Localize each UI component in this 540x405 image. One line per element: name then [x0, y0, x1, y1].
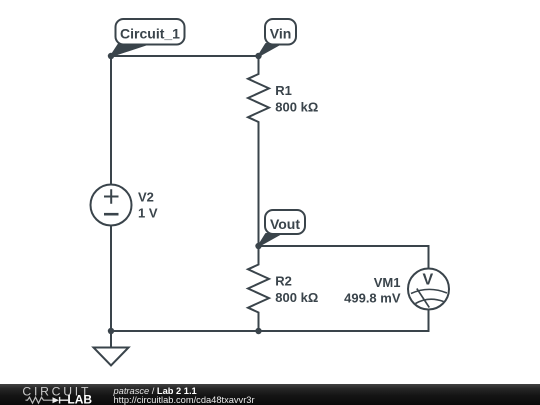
junction dot bottom middle: [255, 328, 261, 334]
voltmeter VM1 499.8 mV: [344, 269, 449, 310]
wire left lower: [110, 226, 112, 332]
svg-text:Vout: Vout: [270, 216, 300, 232]
svg-text:VM1: VM1: [374, 275, 401, 290]
node A junction dot: [108, 53, 114, 59]
wire top: node A to Vin: [111, 55, 259, 57]
wire Vout to voltmeter: [259, 246, 429, 269]
svg-text:V: V: [423, 272, 434, 289]
wire voltmeter to bottom: [111, 310, 429, 332]
flag Vout: [259, 210, 306, 246]
footer credits: [113, 383, 115, 385]
svg-text:800 kΩ: 800 kΩ: [275, 290, 318, 305]
voltage source V2 1 V: [91, 185, 158, 226]
svg-text:LAB: LAB: [67, 393, 92, 405]
node Vin junction dot: [255, 53, 261, 59]
resistor R2 800 k: [248, 246, 318, 331]
svg-text:R2: R2: [275, 274, 292, 289]
svg-text:V2: V2: [138, 190, 154, 205]
ground: [94, 331, 129, 366]
svg-text:1 V: 1 V: [138, 206, 158, 221]
resistor R1 800 k: [248, 56, 318, 246]
CircuitLab logo: [0, 384, 100, 405]
svg-text:Vin: Vin: [270, 26, 292, 42]
svg-text:800 kΩ: 800 kΩ: [275, 100, 318, 115]
svg-text:499.8 mV: 499.8 mV: [344, 291, 401, 306]
svg-text:Circuit_1: Circuit_1: [120, 26, 180, 42]
node Vout junction dot: [255, 243, 261, 249]
wire left upper: [110, 56, 112, 185]
junction dot bottom left: [108, 328, 114, 334]
svg-text:R1: R1: [275, 83, 292, 98]
flag Vin: [259, 19, 297, 56]
flag Circuit_1: [111, 19, 185, 56]
footer bar: [0, 384, 540, 405]
